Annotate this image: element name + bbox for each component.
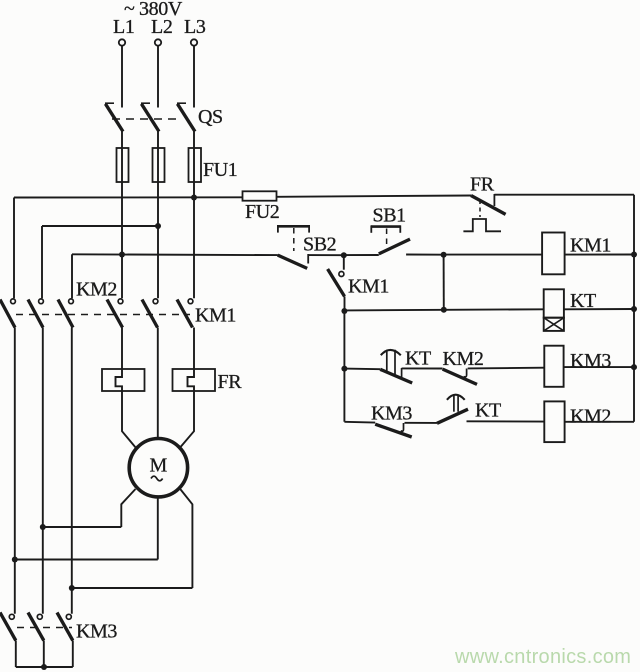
coil KM1	[542, 233, 565, 275]
switch QS linkage dashed	[112, 118, 180, 120]
svg-text:FU1: FU1	[203, 159, 237, 181]
wire KM3 pole1 bottom	[15, 641, 17, 668]
junction bus KM1	[631, 252, 637, 258]
svg-text:KM2: KM2	[76, 279, 117, 301]
wire row3 start	[344, 368, 380, 371]
thermal relay FR heater box 1	[102, 369, 145, 391]
junction line1 motor lead	[12, 557, 18, 563]
motor M circle	[129, 439, 187, 497]
wire L2 drop to QS	[157, 46, 159, 108]
wire tap2 horizontal	[42, 225, 158, 227]
wire row2 to KT coil	[344, 309, 543, 310]
wire right bus vertical	[633, 195, 635, 422]
wire left line3 lower	[71, 328, 73, 614]
svg-text:SB1: SB1	[373, 205, 406, 227]
svg-text:FR: FR	[218, 371, 243, 393]
wire tap1 vertical	[13, 198, 15, 299]
wire row4 start	[344, 421, 375, 424]
svg-text:L3: L3	[184, 16, 206, 38]
svg-text:KM3: KM3	[76, 621, 117, 643]
svg-text:KT: KT	[405, 348, 431, 370]
terminal L3	[191, 39, 197, 45]
wire left line2 lower	[42, 328, 44, 614]
contactor KM3 main pole 3	[57, 613, 73, 641]
svg-text:M: M	[150, 455, 168, 477]
wire motor bottom right horizontal	[72, 587, 193, 589]
junction node D	[441, 307, 447, 313]
wire L2 KM1 to motor	[157, 328, 159, 439]
svg-text:KM3: KM3	[570, 350, 611, 372]
wire SB2 to node A	[308, 254, 344, 256]
contactor KM1 main pole 2	[142, 299, 158, 328]
wire SB1 to node B	[406, 254, 444, 256]
terminal L1	[119, 39, 125, 45]
contactor KM1 main pole 3	[177, 299, 193, 328]
fuse FU1 pole 1	[117, 148, 129, 182]
contactor KM2 main pole 2	[28, 299, 43, 328]
wire node C down to row4 corner	[343, 311, 345, 422]
terminal L2	[155, 39, 161, 45]
wire FR to right bus	[494, 194, 634, 196]
junction L3 top bus	[191, 195, 197, 201]
contactor KM3 main pole 2	[28, 613, 44, 641]
coil KM2	[544, 401, 564, 442]
wire motor bottom left lead	[121, 489, 135, 527]
junction line3 motor lead	[69, 585, 75, 591]
wire KT to KM2 contact row3	[402, 367, 443, 369]
junction star point	[41, 664, 47, 670]
wire motor bottom middle horizontal	[15, 559, 158, 561]
wire L2 QS to KM1 contact	[157, 132, 159, 299]
coil KM3	[544, 346, 563, 387]
junction node B	[441, 252, 447, 258]
wire KM3 coil to bus	[564, 366, 634, 368]
wire star point horizontal	[16, 666, 73, 668]
contactor KM2 main pole 1	[0, 299, 15, 328]
motor tilde	[151, 476, 163, 481]
wire node A to SB1	[344, 254, 379, 256]
wire motor bottom left horizontal	[43, 526, 122, 528]
svg-text:SB2: SB2	[303, 234, 336, 256]
fuse FU1 pole 3	[189, 148, 202, 182]
svg-text:FU2: FU2	[245, 201, 279, 223]
wire KM3 contact to KT contact row4	[405, 422, 438, 424]
wire node B to KM1 coil	[444, 254, 542, 256]
pushbutton SB1	[371, 225, 410, 254]
wire L3 QS to KM1 contact	[193, 132, 195, 299]
wire L1 KM1 to FR heater and motor	[116, 328, 136, 448]
svg-text:KM2: KM2	[443, 348, 484, 370]
junction bus KM3	[631, 364, 637, 370]
pushbutton SB2	[277, 225, 310, 268]
wire tap3 vertical	[71, 254, 73, 298]
thermal relay FR heater box 2	[173, 369, 216, 391]
junction bus KT	[631, 306, 637, 312]
wire L3 drop to QS	[193, 46, 195, 108]
contactor KM1 main pole 1	[107, 299, 123, 328]
junction line2 motor lead	[40, 524, 46, 530]
junction L2 tap2	[155, 223, 161, 229]
svg-text:FR: FR	[470, 174, 495, 196]
wire L1 drop to QS	[121, 46, 123, 108]
junction L1 tap3	[119, 252, 125, 258]
wire FU2 to FR	[277, 196, 472, 197]
wire KM3 pole3 bottom	[72, 641, 74, 668]
wire KM2 contact to KM3 coil	[468, 367, 545, 370]
wire tap3 horizontal to SB2	[72, 253, 278, 256]
wire KT contact to KM2 coil	[467, 420, 545, 422]
fuse FU1 pole 2	[153, 148, 165, 182]
contactor KM2 main pole 3	[58, 299, 73, 328]
contact KM1 aux NO	[328, 255, 345, 311]
switch QS pole 3	[177, 103, 195, 131]
svg-text:QS: QS	[198, 106, 223, 128]
junction node C	[341, 308, 347, 314]
thermal relay contact FR	[463, 194, 505, 231]
contact KM2 aux NC row3	[443, 369, 477, 385]
svg-text:KM3: KM3	[371, 403, 412, 425]
svg-text:KT: KT	[475, 400, 501, 422]
svg-text:KM1: KM1	[195, 305, 236, 327]
contact KM3 aux NO row4	[375, 423, 412, 437]
junction node A	[341, 252, 347, 258]
linkage dashed KM3	[17, 627, 72, 629]
coil KT	[544, 289, 564, 331]
wire KM1 coil to bus	[565, 254, 634, 256]
switch QS pole 2	[141, 103, 159, 131]
svg-text:KM1: KM1	[348, 276, 389, 298]
switch QS pole 1	[105, 103, 123, 131]
wire motor bottom middle lead	[157, 497, 159, 560]
wire left line1 lower	[14, 328, 16, 614]
linkage dashed KM2 KM1	[16, 314, 190, 316]
wire KT coil to bus	[564, 308, 634, 310]
contactor KM3 main pole 1	[0, 613, 16, 641]
wire node B down to node D	[443, 255, 445, 310]
svg-text:KM2: KM2	[570, 406, 611, 428]
fuse FU2	[243, 191, 277, 200]
wire L3 KM1 to FR heater and motor	[180, 328, 194, 448]
wire KM3 pole2 bottom	[43, 641, 45, 668]
wire top bus to FU2	[14, 196, 243, 198]
wire L1 QS to KM1 contact	[121, 132, 123, 299]
svg-text:www.cntronics.com: www.cntronics.com	[454, 646, 631, 668]
wire KM2 coil to bus corner	[565, 421, 634, 423]
contact KT delayed NC row3	[380, 350, 412, 383]
svg-text:L1: L1	[113, 16, 134, 38]
svg-text:KM1: KM1	[570, 235, 611, 257]
contact KT delayed NO row4	[437, 395, 468, 424]
wire tap2 vertical	[41, 226, 43, 298]
junction node E	[341, 366, 347, 372]
wire motor bottom right lead	[180, 489, 192, 588]
svg-text:L2: L2	[151, 16, 172, 38]
